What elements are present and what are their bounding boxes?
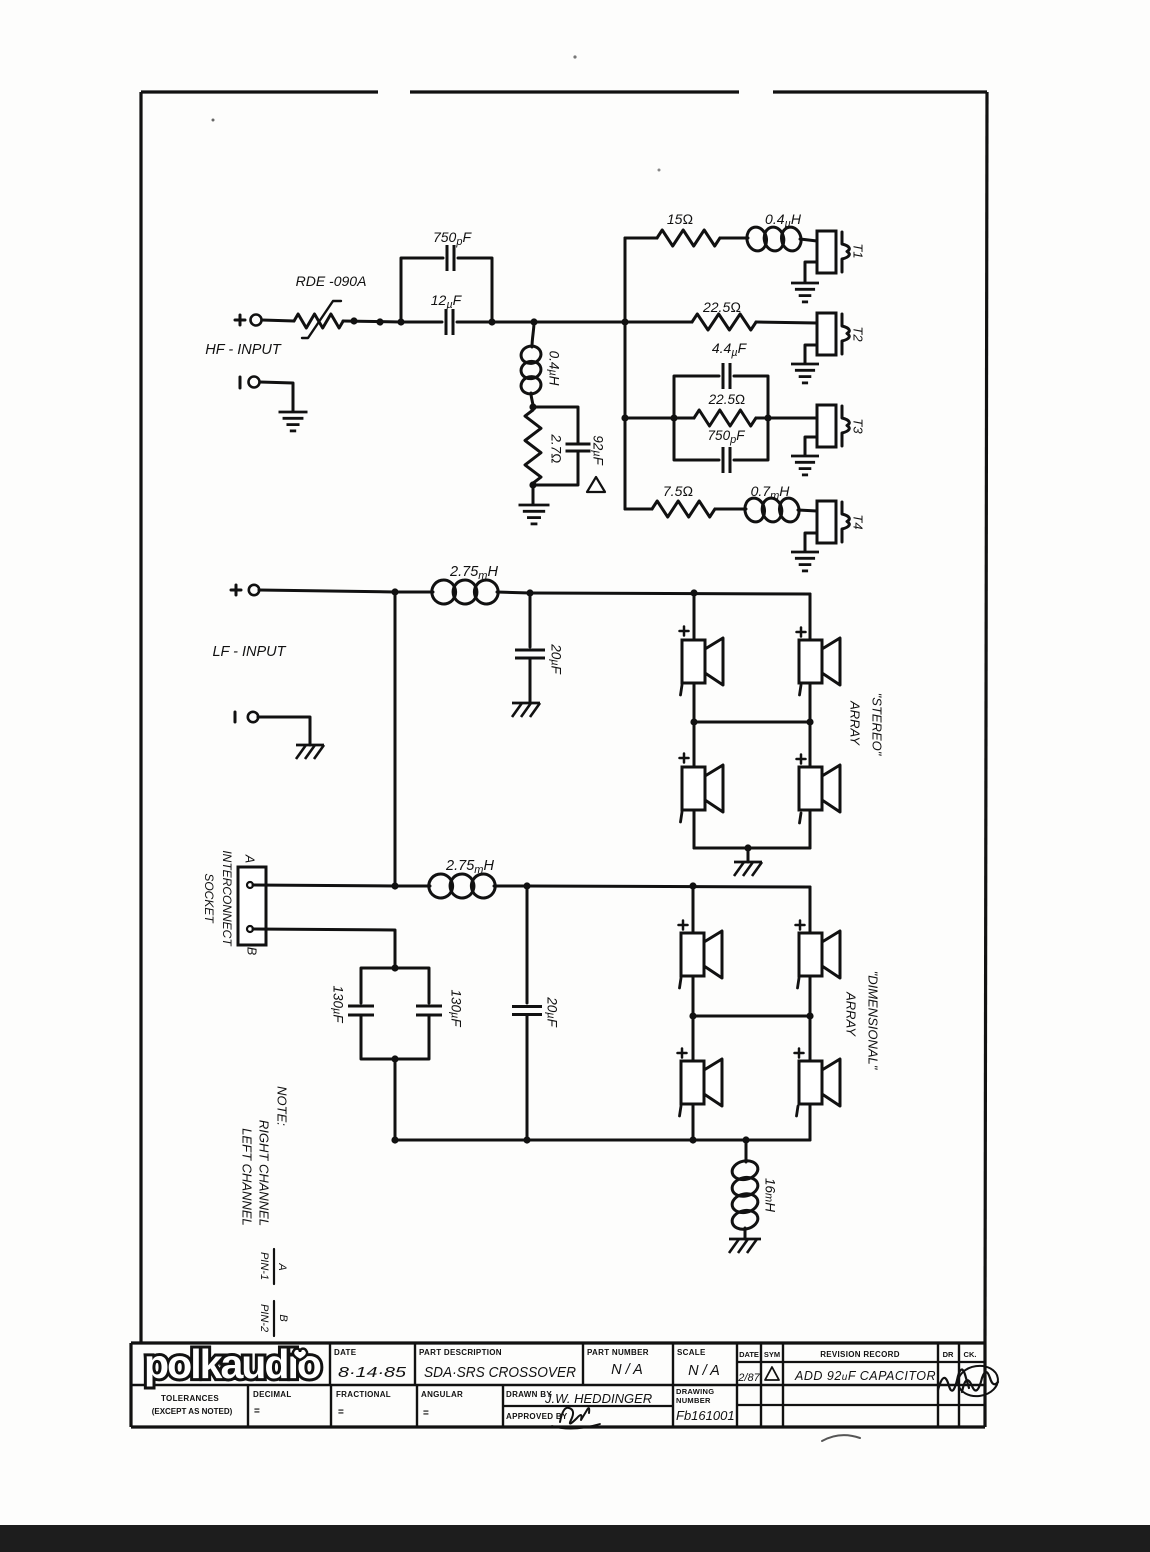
svg-text:"DIMENSIONAL": "DIMENSIONAL": [865, 971, 880, 1071]
pin A: [247, 882, 253, 888]
ground: [791, 551, 819, 554]
wire: [625, 508, 652, 511]
capacitor 12uF: [401, 321, 442, 324]
wire: [692, 886, 695, 933]
svg-text:130µF: 130µF: [448, 989, 463, 1027]
svg-text:DR: DR: [943, 1350, 954, 1359]
wire: [805, 262, 817, 282]
svg-text:T1: T1: [850, 243, 865, 258]
wire dimensional return: [395, 1139, 810, 1142]
svg-text:7.5Ω: 7.5Ω: [663, 483, 693, 499]
inductor 16mH: [745, 1140, 748, 1162]
svg-text:ADD 92uF CAPACITOR: ADD 92uF CAPACITOR: [794, 1369, 936, 1383]
node junction: [391, 1136, 398, 1143]
svg-text:15Ω: 15Ω: [667, 211, 694, 227]
svg-text:ANGULAR: ANGULAR: [421, 1390, 463, 1399]
svg-text:=: =: [423, 1408, 429, 1419]
speaker dim R2: [799, 1061, 822, 1104]
ground: [729, 1238, 761, 1241]
svg-text:RIGHT CHANNEL: RIGHT CHANNEL: [256, 1120, 271, 1226]
node LF+ terminal: [231, 589, 241, 592]
capacitor 750pF (T3): [674, 418, 719, 460]
wire mid bus: [394, 592, 397, 886]
node junction: [391, 588, 398, 595]
capacitor 20uF (dimensional): [526, 886, 529, 1003]
wire: [693, 810, 696, 848]
revision triangle symbol: [587, 477, 605, 492]
ground: [791, 282, 819, 285]
svg-text:DECIMAL: DECIMAL: [253, 1390, 292, 1399]
wire: [259, 590, 395, 592]
capacitor 4.4uF: [674, 376, 719, 418]
node junction: [670, 414, 677, 421]
svg-text:J.W. HEDDINGER: J.W. HEDDINGER: [544, 1391, 652, 1406]
wire: [625, 237, 657, 240]
resistor 22.5ohm: [692, 314, 756, 330]
wire: [692, 1104, 695, 1140]
ground: [512, 702, 540, 705]
svg-text:PART DESCRIPTION: PART DESCRIPTION: [419, 1348, 502, 1357]
svg-text:SDA·SRS CROSSOVER: SDA·SRS CROSSOVER: [424, 1365, 576, 1381]
capacitor 130uF right: [395, 968, 429, 1003]
speaker stereo R2: [799, 767, 822, 810]
svg-text:=: =: [338, 1407, 344, 1418]
svg-text:B: B: [245, 947, 259, 955]
node junction: [689, 882, 696, 889]
wire: [343, 321, 401, 322]
node junction: [526, 589, 533, 596]
svg-text:20µF: 20µF: [544, 996, 559, 1027]
scanner black bar: [0, 1525, 1150, 1552]
svg-text:20µF: 20µF: [548, 643, 563, 674]
wire: [768, 417, 817, 420]
node junction: [621, 318, 628, 325]
svg-text:B: B: [277, 1314, 289, 1321]
wire from pin A: [253, 885, 395, 886]
svg-text:130µF: 130µF: [330, 985, 345, 1023]
svg-text:LEFT CHANNEL: LEFT CHANNEL: [239, 1128, 254, 1226]
node junction: [523, 882, 530, 889]
wire: [756, 322, 817, 323]
svg-text:2/87: 2/87: [737, 1372, 760, 1384]
wire: [805, 533, 817, 551]
node junction: [764, 414, 771, 421]
svg-text:N / A: N / A: [611, 1362, 643, 1378]
svg-text:2.75mH: 2.75mH: [445, 858, 494, 876]
wire: [800, 239, 817, 241]
svg-text:8·14·85: 8·14·85: [338, 1365, 407, 1381]
wire: [394, 1059, 397, 1140]
potentiometer RDE-090A: [294, 314, 343, 328]
svg-text:LF - INPUT: LF - INPUT: [212, 644, 286, 660]
ground: [519, 504, 550, 507]
svg-text:ARRAY: ARRAY: [847, 700, 862, 746]
wire: [492, 321, 625, 324]
svg-text:(EXCEPT AS NOTED): (EXCEPT AS NOTED): [152, 1407, 233, 1416]
svg-text:DATE: DATE: [739, 1350, 759, 1359]
wire: [692, 976, 695, 1016]
svg-text:0.4µH: 0.4µH: [546, 351, 561, 386]
speaker dim L1: [681, 933, 704, 976]
node junction: [397, 318, 404, 325]
svg-text:NUMBER: NUMBER: [676, 1396, 711, 1405]
wire: [693, 683, 696, 722]
wire: [805, 345, 817, 363]
speaker stereo R1: [799, 640, 822, 683]
inductor 2.75mH (dimensional): [395, 885, 430, 888]
resistor 2.7ohm: [525, 410, 541, 483]
capacitor 92uF: [533, 407, 578, 444]
node HF+ terminal: [235, 319, 245, 322]
svg-text:polkaudio: polkaudio: [144, 1341, 321, 1387]
inductor 0.7mH: [743, 496, 767, 524]
svg-text:T4: T4: [850, 514, 865, 529]
ground: [296, 744, 324, 747]
signature CK: [962, 1372, 998, 1392]
node junction: [690, 589, 697, 596]
wire stereo feed: [530, 593, 810, 594]
wire: [720, 237, 748, 240]
ground: [791, 363, 819, 366]
node LF- terminal: [234, 712, 237, 722]
node junction: [530, 318, 537, 325]
node junction: [529, 481, 536, 488]
svg-text:T2: T2: [850, 326, 865, 342]
wire: [747, 848, 750, 862]
wire: [692, 1016, 695, 1061]
inductor 0.4uH shunt: [532, 322, 534, 347]
svg-text:DRAWING: DRAWING: [676, 1387, 714, 1396]
wire stereo mid tie: [694, 721, 810, 724]
speaker stereo L2: [682, 767, 705, 810]
node HF- terminal: [239, 377, 242, 388]
tweeter T2: [817, 313, 836, 355]
svg-text:DATE: DATE: [334, 1348, 357, 1357]
wire: [258, 717, 310, 745]
wire: [625, 417, 674, 420]
svg-text:NOTE:: NOTE:: [274, 1086, 289, 1126]
speaker dim R1: [799, 933, 822, 976]
svg-text:INTERCONNECT: INTERCONNECT: [220, 850, 234, 947]
wire stereo return: [694, 847, 810, 850]
pin B: [247, 926, 253, 932]
stray scan marks: [822, 1435, 860, 1441]
wire: [625, 321, 692, 324]
wire: [715, 508, 746, 511]
node junction: [744, 844, 751, 851]
svg-text:16mH: 16mH: [762, 1178, 777, 1212]
node junction: [391, 1055, 398, 1062]
wire: [260, 382, 293, 411]
wire dim mid tie: [693, 1015, 810, 1018]
svg-text:PIN-2: PIN-2: [258, 1304, 270, 1332]
svg-text:Fb161001: Fb161001: [676, 1408, 735, 1423]
svg-text:HF - INPUT: HF - INPUT: [205, 342, 282, 358]
svg-text:APPROVED BY: APPROVED BY: [506, 1412, 568, 1421]
svg-text:FRACTIONAL: FRACTIONAL: [336, 1390, 391, 1399]
svg-text:CK.: CK.: [964, 1350, 977, 1359]
capacitor 750pF (HF bypass): [401, 258, 443, 322]
svg-text:22.5Ω: 22.5Ω: [708, 392, 746, 407]
svg-text:=: =: [254, 1406, 260, 1417]
node junction: [350, 317, 357, 324]
resistor 15ohm: [657, 230, 720, 246]
svg-text:T3: T3: [850, 418, 865, 434]
tweeter T4: [817, 501, 836, 543]
capacitor 20uF (stereo): [529, 593, 532, 647]
svg-text:SCALE: SCALE: [677, 1348, 706, 1357]
ground: [279, 411, 308, 414]
wire dimensional feed: [527, 886, 810, 887]
wire: [693, 722, 696, 767]
wire: [805, 437, 817, 455]
node junction: [391, 964, 398, 971]
svg-text:REVISION RECORD: REVISION RECORD: [820, 1350, 900, 1359]
wire: [798, 510, 817, 511]
svg-text:92µF: 92µF: [590, 435, 605, 465]
title block: [131, 1341, 985, 1344]
capacitor 130uF left: [361, 968, 395, 1003]
inductor 0.4uH: [745, 225, 769, 253]
svg-text:2.75mH: 2.75mH: [449, 564, 498, 582]
svg-text:A: A: [243, 854, 257, 863]
ground: [791, 455, 819, 458]
resistor 22.5ohm (T3): [694, 410, 756, 426]
inductor 2.75mH (stereo): [395, 591, 433, 594]
svg-text:2.7Ω: 2.7Ω: [548, 433, 563, 463]
resistor 7.5ohm: [652, 501, 715, 517]
svg-text:N / A: N / A: [688, 1363, 720, 1379]
svg-text:ARRAY: ARRAY: [843, 991, 858, 1037]
wire: [532, 485, 535, 504]
svg-text:RDE -090A: RDE -090A: [296, 273, 367, 289]
wire: [262, 320, 294, 321]
svg-text:PART NUMBER: PART NUMBER: [587, 1348, 649, 1357]
wire: [809, 594, 812, 640]
speaker dim L2: [681, 1061, 704, 1104]
svg-text:SYM: SYM: [764, 1350, 780, 1359]
wire HF bus: [624, 238, 627, 509]
wire from pin B: [253, 929, 395, 968]
wire: [693, 593, 696, 640]
tweeter T1: [817, 231, 836, 273]
speaker stereo L1: [682, 640, 705, 683]
connector interconnect socket: [238, 867, 266, 945]
svg-text:"STEREO": "STEREO": [869, 693, 884, 757]
node junction: [529, 403, 536, 410]
tweeter T3: [817, 405, 836, 447]
ground: [734, 861, 762, 864]
svg-text:A: A: [276, 1262, 288, 1270]
svg-text:PIN-1: PIN-1: [258, 1252, 270, 1280]
svg-text:TOLERANCES: TOLERANCES: [161, 1394, 219, 1403]
svg-text:SOCKET: SOCKET: [202, 873, 216, 924]
signature DR: [938, 1369, 969, 1390]
node junction: [391, 882, 398, 889]
svg-text:22.5Ω: 22.5Ω: [702, 299, 741, 315]
